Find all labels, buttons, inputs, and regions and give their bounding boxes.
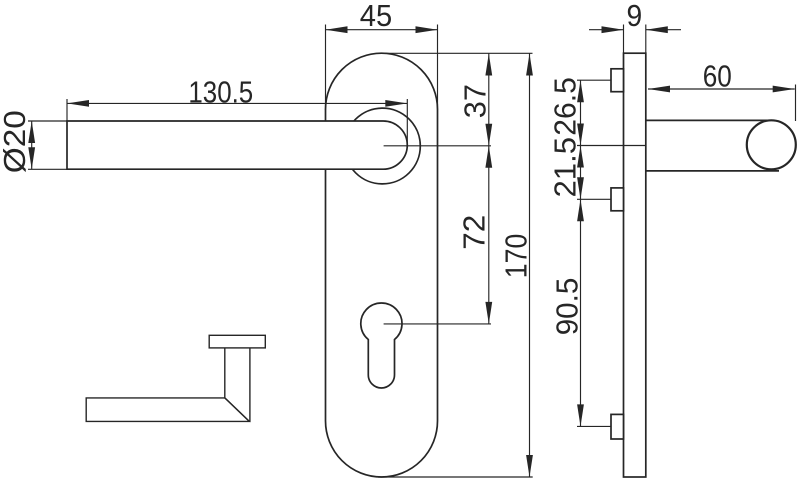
dim 45: line [326, 29, 438, 31]
arrow 60 left [648, 86, 670, 93]
dim 130.5: extension left (bar edge up) [66, 99, 68, 121]
svg-text:26.5: 26.5 [548, 77, 583, 136]
lever top view: grip bar [86, 398, 249, 422]
lever grip end circle [747, 120, 796, 169]
dim 9: extension lines [623, 25, 625, 54]
arrow 37 top [485, 54, 492, 76]
arrow 170 bottom [526, 455, 533, 477]
arrow 72 top [485, 146, 492, 168]
arrow 72 bottom [485, 302, 492, 324]
screw boss 2 [611, 188, 624, 211]
dim d20: extension bottom [28, 168, 67, 170]
svg-text:170: 170 [499, 234, 534, 279]
side plate [624, 53, 646, 477]
svg-text:72: 72 [457, 215, 492, 250]
dim d20: line [31, 121, 33, 169]
arrow 26.5 bottom [577, 124, 584, 146]
dim 60: line [648, 88, 795, 90]
svg-text:45: 45 [360, 0, 392, 33]
svg-text:21.5: 21.5 [548, 137, 583, 198]
spindle centerline through side plate [577, 145, 645, 147]
arrow 130.5 left [67, 100, 89, 107]
arrow d20 top [28, 121, 35, 143]
lever bar (side view) bottom edge [646, 170, 779, 172]
svg-text:9: 9 [627, 0, 643, 33]
side ext: boss1 center [577, 79, 611, 81]
screw boss 3 [611, 414, 624, 439]
arrow 37 bottom [485, 124, 492, 146]
arrow 90.5 bottom [577, 404, 584, 426]
arrow 26.5 top [577, 80, 584, 102]
arrow 130.5 right [385, 100, 407, 107]
lever top view: collar cap [209, 335, 265, 348]
screw boss 1 [611, 69, 624, 92]
svg-text:130.5: 130.5 [188, 75, 253, 110]
rose/boss circle [345, 108, 421, 184]
lever top view: diagonal [225, 398, 250, 422]
svg-text:90.5: 90.5 [549, 278, 584, 336]
svg-text:37: 37 [458, 84, 493, 118]
dim 72: line [488, 146, 490, 324]
dim 37/72: line 37 [488, 54, 490, 146]
dim 45: extension lines [325, 25, 327, 111]
centerline from boss center to right [384, 145, 491, 147]
side ext: boss2 center [577, 198, 611, 200]
lever bar (side view) top edge [646, 119, 772, 121]
arrow 60 right [773, 86, 795, 93]
arrow 90.5 top [577, 199, 584, 221]
dim d20: extension top [28, 120, 67, 122]
arrow 45 left [326, 26, 348, 33]
arrow 21.5 top [577, 146, 584, 168]
svg-text:60: 60 [703, 58, 732, 93]
ext bottom (plate bottom to right) [378, 476, 533, 478]
dim 130.5: extension right [406, 99, 408, 143]
dim 9: line right tail [646, 29, 681, 31]
backplate (stadium) [326, 53, 438, 477]
dim 9: line left tail [589, 29, 624, 31]
arrow 170 top [526, 54, 533, 76]
dim 170: line [529, 54, 531, 478]
ext top (plate top to right) [384, 52, 533, 54]
svg-text:Ø20: Ø20 [0, 110, 32, 173]
dim 60: extension right [795, 85, 797, 122]
dim 26.5/21.5/90.5: vertical line [580, 80, 582, 426]
keyhole (euro profile cylinder) [361, 303, 402, 388]
arrow 9 right [646, 26, 668, 33]
lever top view: neck left [224, 348, 226, 398]
arrow 21.5 bottom [577, 177, 584, 199]
arrow 9 left [602, 26, 624, 33]
dim 130.5: line [67, 102, 407, 104]
lever bar (front view, covers boss left part and plate edge) [67, 121, 407, 169]
lever top view: neck right [249, 348, 251, 422]
arrow 45 right [416, 26, 438, 33]
centerline from keyhole center to right [384, 323, 491, 325]
arrow d20 bottom [28, 147, 35, 169]
side ext: boss3 center [577, 425, 611, 427]
